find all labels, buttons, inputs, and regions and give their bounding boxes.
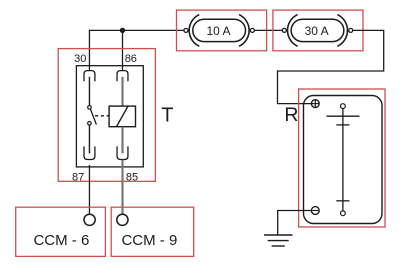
wire: battery negative to ground xyxy=(278,211,312,235)
wire: fuse F2 to battery positive terminal xyxy=(278,30,384,103)
wire: relay pin 87 to terminal CCM-6 xyxy=(88,165,90,215)
battery negative terminal xyxy=(311,207,319,215)
label CCM - 6 xyxy=(33,232,89,249)
fuse F2 highlight box xyxy=(273,10,363,51)
relay pin 85 socket fork xyxy=(117,146,128,159)
battery outline xyxy=(304,96,383,224)
terminal circle CCM-6 xyxy=(84,214,95,225)
label CCM - 9 xyxy=(121,232,177,249)
svg-text:T: T xyxy=(161,105,173,127)
relay pin label 30 xyxy=(74,53,86,65)
relay pin label 87 xyxy=(72,171,84,183)
wire: between fuse F1 and fuse F2 xyxy=(254,29,282,31)
fuse F2 right terminal circle xyxy=(349,28,353,32)
battery designator label R xyxy=(284,104,298,126)
relay pin 86 socket fork xyxy=(117,71,128,82)
relay internal wire: pin 30 to switch contact xyxy=(88,77,90,106)
node: junction on feed wire above pin 86 xyxy=(120,28,125,33)
battery cell column bottom circle xyxy=(341,211,346,216)
svg-text:30: 30 xyxy=(74,53,86,65)
fuse F2 holder right arc xyxy=(337,15,347,47)
svg-text:CCM - 9: CCM - 9 xyxy=(121,232,177,249)
fuse F2 body xyxy=(291,19,344,41)
fuse F1 rating label 10 A xyxy=(206,24,230,38)
battery positive terminal xyxy=(311,100,319,108)
relay pin label 85 xyxy=(126,171,138,183)
ground symbol xyxy=(264,235,293,246)
fuse F1 holder left arc xyxy=(189,15,199,47)
relay switch to pin 87 wire xyxy=(88,125,90,153)
svg-text:30 A: 30 A xyxy=(305,24,329,38)
relay pin 30 socket fork xyxy=(84,71,95,82)
fuse F2 rating label 30 A xyxy=(305,24,329,38)
wire: feed from fuse F1 to relay pin 30 xyxy=(89,30,184,70)
svg-text:R: R xyxy=(284,104,298,126)
fuse F1 right terminal circle xyxy=(250,28,254,32)
wire: branch down to relay pin 86 xyxy=(122,30,124,70)
relay T highlight box xyxy=(58,49,155,182)
connector CCM-9 highlight box xyxy=(111,207,194,256)
battery cell short plate upper xyxy=(336,124,349,126)
wire gray: relay pin 85 to terminal CCM-9 xyxy=(121,160,123,215)
svg-text:10 A: 10 A xyxy=(206,24,230,38)
relay switch lower contact xyxy=(88,122,92,126)
relay T outline xyxy=(76,66,143,167)
fuse F2 left terminal circle xyxy=(282,28,286,32)
relay pin label 86 xyxy=(125,53,137,65)
fuse F1 highlight box xyxy=(177,10,267,51)
battery cell column wire xyxy=(342,109,344,211)
relay coil wire gray: pin 86 to coil xyxy=(121,77,123,106)
battery cell long plate xyxy=(327,115,360,117)
svg-text:CCM - 6: CCM - 6 xyxy=(33,232,89,249)
battery cell column top circle xyxy=(341,104,346,109)
relay switch upper contact xyxy=(88,106,92,110)
fuse F1 left terminal circle xyxy=(184,28,188,32)
svg-text:87: 87 xyxy=(72,171,84,183)
fuse F2 holder left arc xyxy=(288,15,298,47)
relay actuation dashed link xyxy=(95,115,109,117)
svg-text:85: 85 xyxy=(126,171,138,183)
fuse F1 holder right arc xyxy=(239,15,249,47)
battery cell short plate lower xyxy=(336,200,349,202)
connector CCM-6 highlight box xyxy=(16,207,106,256)
relay coil wire gray: coil to pin 85 xyxy=(121,127,123,154)
relay pin 87 socket fork xyxy=(84,146,95,159)
fuse F1 body xyxy=(193,19,246,41)
relay switch blade xyxy=(90,109,96,125)
terminal circle CCM-9 xyxy=(117,214,128,225)
battery R highlight box xyxy=(299,89,385,227)
relay designator label T xyxy=(161,105,173,127)
relay coil xyxy=(109,106,135,127)
svg-text:86: 86 xyxy=(125,53,137,65)
